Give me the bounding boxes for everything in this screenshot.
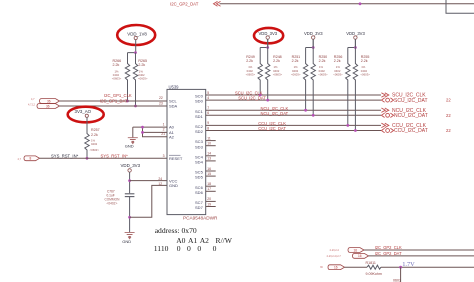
svg-text:0603: 0603	[393, 279, 401, 282]
svg-text:12: 12	[158, 182, 162, 186]
svg-text:R1811: R1811	[366, 261, 376, 265]
pin name SDA / pin 23	[159, 101, 178, 108]
wire SYS_RST_IN*	[40, 157, 168, 159]
svg-text:SD6: SD6	[195, 190, 204, 195]
svg-text:24: 24	[158, 177, 162, 181]
svg-text:22: 22	[159, 96, 163, 100]
svg-text:0: 0	[197, 244, 201, 253]
junction A2/A1 tie	[141, 131, 144, 134]
resistor R250	[311, 39, 328, 115]
junction R266 to SCL wire	[126, 100, 129, 103]
svg-text:SDA: SDA	[169, 104, 178, 109]
svg-text:A0: A0	[169, 125, 175, 130]
wire cap to ground rail	[129, 197, 131, 233]
wire GND pin 12 routing	[130, 185, 167, 217]
partial component box top-right	[446, 0, 474, 13]
wire to VCC pin 24	[130, 180, 167, 182]
off-page marker SCU_I2C_DAT	[381, 98, 427, 104]
svg-text:9: 9	[207, 121, 209, 125]
off-page marker SCU_I2C_CLK	[381, 93, 426, 99]
junction GND rail	[128, 216, 131, 219]
svg-text:<0603>: <0603>	[138, 77, 148, 81]
svg-text:36: 36	[320, 266, 323, 269]
svg-text:0: 0	[213, 244, 217, 253]
highlight ellipse around VDD_3V3 #1	[254, 28, 283, 43]
svg-text:SCU_I2C_DAT: SCU_I2C_DAT	[394, 98, 428, 104]
svg-text:<0603>: <0603>	[273, 72, 283, 76]
capacitor C767	[105, 190, 135, 206]
power symbol VDD_3V3 #2	[304, 31, 323, 39]
off-page connector I2C_GP1_DAT	[28, 103, 60, 108]
wire VDD_3V3 #2 to resistor pair	[306, 39, 314, 47]
off-page connector I2C_GP2_DAT	[327, 254, 369, 259]
svg-text:16: 16	[207, 167, 211, 171]
svg-text:7: 7	[207, 106, 209, 110]
pin SC5 (16) wire	[195, 167, 216, 175]
svg-text:GND: GND	[122, 239, 131, 244]
pin SC7 (20) wire	[195, 197, 216, 205]
resistor R255	[353, 39, 370, 130]
svg-text:<0603>: <0603>	[291, 72, 301, 76]
svg-text:2.2k: 2.2k	[91, 133, 98, 137]
svg-text:5: 5	[207, 91, 209, 95]
svg-text:14: 14	[207, 152, 211, 156]
ground symbol at A pins	[125, 138, 138, 149]
svg-text:17: 17	[207, 187, 211, 191]
resistor R251	[291, 48, 308, 111]
svg-text:15: 15	[207, 172, 211, 176]
svg-text:<0603>: <0603>	[318, 72, 328, 76]
power symbol VDD_1V8	[127, 31, 147, 39]
resistor R1811	[366, 261, 402, 282]
pin SD5 (15) wire	[195, 172, 216, 180]
junction VDD_3V3 #2	[312, 46, 315, 49]
svg-text:SD1: SD1	[195, 114, 204, 119]
svg-text:19: 19	[207, 202, 211, 206]
svg-text:VDD_3V3: VDD_3V3	[304, 31, 323, 36]
svg-text:8: 8	[30, 157, 32, 161]
svg-text:R257: R257	[91, 128, 100, 132]
svg-text:8: 8	[207, 126, 209, 130]
pin SC6 (18) wire	[195, 182, 216, 190]
svg-text:<0603>: <0603>	[246, 72, 256, 76]
svg-text:SD5: SD5	[195, 175, 204, 180]
svg-text:RESET: RESET	[169, 156, 183, 161]
svg-text:2.2k: 2.2k	[273, 59, 280, 63]
off-page connector SYS_RST_IN*	[18, 156, 40, 161]
svg-text:SCU_I2C_DAT: SCU_I2C_DAT	[238, 96, 266, 101]
off-page marker NCU_I2C_CLK	[381, 108, 426, 114]
svg-text:I2C_GP1_DAT: I2C_GP1_DAT	[100, 98, 128, 103]
svg-text:22: 22	[446, 128, 451, 133]
wire R1811 to edge	[381, 266, 474, 268]
svg-text:I2C_GP2_CLK: I2C_GP2_CLK	[375, 245, 402, 250]
pin SD7 (19) wire	[195, 202, 216, 210]
svg-text:22: 22	[446, 113, 451, 118]
pin SC0 (5) wire	[195, 91, 381, 99]
junction A1/A0 tie	[141, 126, 144, 129]
svg-text:16: 16	[354, 248, 358, 252]
off-page marker CCU_I2C_CLK	[381, 123, 426, 129]
svg-text:R//W: R//W	[216, 236, 233, 245]
resistor R265	[133, 53, 148, 106]
svg-text:<0603>: <0603>	[360, 72, 370, 76]
svg-text:4,7: 4,7	[31, 98, 35, 101]
svg-text:36: 36	[46, 104, 50, 108]
pin RESET (3)	[163, 154, 183, 161]
svg-text:3V3_AO: 3V3_AO	[75, 109, 92, 114]
svg-text:6: 6	[207, 111, 209, 115]
svg-text:VDD_3V3: VDD_3V3	[121, 163, 141, 168]
svg-text:CCU_I2C_DAT: CCU_I2C_DAT	[394, 128, 428, 134]
pin name SCL / pin 22	[159, 96, 178, 104]
svg-text:18: 18	[207, 182, 211, 186]
svg-text:I2C_GP1_CLK: I2C_GP1_CLK	[104, 93, 132, 98]
svg-text:NCU_I2C_DAT: NCU_I2C_DAT	[261, 111, 289, 116]
svg-text:address: 0x70: address: 0x70	[155, 226, 197, 235]
wire A0 to ground	[132, 127, 134, 137]
svg-text:2.2k: 2.2k	[361, 59, 368, 63]
svg-text:<0603>: <0603>	[90, 148, 100, 152]
svg-text:2.2k: 2.2k	[292, 59, 299, 63]
wire to R1811	[345, 266, 368, 268]
pin A0 (1) wire	[133, 122, 175, 129]
resistor R248	[266, 39, 283, 100]
address annotation block	[154, 226, 233, 253]
svg-text:SD4: SD4	[195, 160, 204, 165]
junction R255 to CCU dat wire	[354, 129, 357, 132]
off-page marker CCU_I2C_DAT	[381, 128, 427, 134]
pin VCC (24)	[158, 177, 177, 184]
svg-text:I2C_GP2_DAT: I2C_GP2_DAT	[170, 1, 199, 6]
svg-text:10: 10	[207, 142, 211, 146]
svg-text:SD3: SD3	[195, 144, 204, 149]
svg-text:SD0: SD0	[195, 99, 204, 104]
pin SC1 (7) wire	[195, 106, 381, 114]
off-page connector I2C_GP2_CLK	[330, 248, 365, 253]
svg-text:GND: GND	[125, 144, 134, 149]
resistor R249	[246, 48, 263, 96]
wire I2C_GP1_DAT	[60, 105, 168, 107]
junction R248 to SCU dat wire	[266, 99, 269, 102]
power symbol VDD_3V3 #1	[259, 31, 278, 39]
wire I2C_GP2_DAT (top horizontal)	[220, 3, 474, 5]
svg-text:NCU_I2C_DAT: NCU_I2C_DAT	[394, 113, 428, 119]
pin GND (12)	[158, 182, 178, 188]
junction on top wire	[359, 2, 362, 5]
pin SC3 (11) wire	[195, 136, 216, 144]
junction R251 to NCU clk wire	[304, 109, 307, 112]
pin SD1 (6) wire	[195, 111, 381, 119]
svg-text:VDD_3V3: VDD_3V3	[259, 31, 278, 36]
ground symbol below C767	[122, 233, 134, 245]
svg-text:36: 36	[47, 99, 51, 103]
pin SD3 (10) wire	[195, 142, 216, 150]
resistor R257	[85, 117, 100, 158]
svg-text:4,7: 4,7	[18, 158, 22, 161]
pin A2 (21) wire	[143, 127, 175, 139]
resistor R266	[112, 53, 130, 101]
svg-text:2.2k: 2.2k	[138, 63, 145, 67]
svg-text:CCU_I2C_DAT: CCU_I2C_DAT	[258, 126, 286, 131]
svg-text:11: 11	[207, 136, 211, 140]
wire I2C_GP2_DAT (bottom)	[369, 255, 474, 257]
svg-text:20: 20	[207, 197, 211, 201]
net label I2C_GP2_DAT with chevron marker	[170, 1, 221, 6]
svg-text:0402: 0402	[91, 142, 98, 146]
svg-text:2.2k: 2.2k	[246, 59, 253, 63]
pin SD2 (8) wire	[195, 126, 381, 134]
svg-text:GND: GND	[169, 183, 178, 188]
svg-text:4-I2,I2-4: 4-I2,I2-4	[330, 249, 340, 252]
svg-text:4,7,12: 4,7,12	[28, 103, 36, 106]
svg-text:<0402>: <0402>	[107, 202, 118, 206]
svg-text:23: 23	[159, 101, 163, 105]
svg-text:SD2: SD2	[195, 129, 204, 134]
svg-text:4-I2,I2-4,I2-7: 4-I2,I2-4,I2-7	[327, 255, 342, 258]
svg-text:0: 0	[187, 244, 191, 253]
svg-text:SYS_RST_IN*: SYS_RST_IN*	[51, 154, 79, 159]
junction R257 to SYS_RST wire	[86, 157, 89, 160]
resistor R256	[333, 48, 350, 126]
junction R256 to CCU clk wire	[346, 124, 349, 127]
svg-text:16: 16	[334, 266, 338, 270]
wire junction down	[400, 267, 402, 282]
wire VDD_3V3 down to VCC branch	[129, 172, 131, 193]
junction VDD_3V3 #3	[354, 46, 357, 49]
wire I2C_GP2_CLK	[364, 249, 474, 251]
svg-text:SYS_RST_IN*: SYS_RST_IN*	[101, 154, 129, 159]
svg-text:2.2k: 2.2k	[113, 63, 120, 67]
svg-text:2.2k: 2.2k	[334, 59, 341, 63]
pin SD0 (4) wire	[195, 96, 381, 104]
off-page connector I2C_GP1_CLK	[31, 98, 60, 103]
pin SD4 (13) wire	[195, 157, 216, 165]
svg-text:U539: U539	[169, 85, 180, 90]
svg-text:<0603>: <0603>	[333, 72, 343, 76]
svg-text:16: 16	[358, 254, 362, 258]
svg-text:PCA9548ADWR: PCA9548ADWR	[183, 216, 218, 221]
wire VDD_1V8 to resistor pair	[128, 40, 136, 53]
svg-text:SD7: SD7	[195, 205, 204, 210]
svg-text:1110: 1110	[154, 244, 169, 253]
svg-text:13: 13	[207, 157, 211, 161]
pin A1 (2) wire	[143, 128, 175, 135]
junction R250 to NCU dat wire	[312, 114, 315, 117]
power symbol 3V3_AO	[75, 109, 92, 117]
wire VDD_3V3 #3 to resistor pair	[348, 39, 356, 47]
chip U539 body	[167, 85, 218, 221]
junction at VDD_1V8 feed	[134, 51, 137, 54]
pin SC4 (14) wire	[195, 152, 216, 160]
junction VCC branch	[128, 179, 131, 182]
junction at R1811 output	[399, 266, 402, 269]
svg-text:21: 21	[161, 132, 165, 136]
svg-text:3: 3	[163, 154, 165, 158]
wire I2C_GP1_CLK	[60, 100, 168, 102]
junction VDD_3V3 #1	[266, 46, 269, 49]
svg-text:2.2k: 2.2k	[319, 59, 326, 63]
svg-text:0: 0	[177, 244, 181, 253]
highlight ellipse around 3V3_AO	[68, 107, 104, 123]
off-page connector R1811 input	[320, 265, 345, 270]
pin SD6 (17) wire	[195, 187, 216, 195]
svg-text:22: 22	[446, 98, 451, 103]
pin SC2 (9) wire	[195, 121, 381, 129]
svg-text:9.09Kohm: 9.09Kohm	[366, 272, 382, 276]
svg-text:<0603>: <0603>	[112, 77, 122, 81]
junction R249 to SCU clk wire	[259, 94, 262, 97]
svg-text:4: 4	[207, 96, 209, 100]
power symbol VDD_3V3 #3	[346, 31, 365, 39]
highlight ellipse around VDD_1V8	[117, 25, 155, 45]
svg-text:VDD_1V8: VDD_1V8	[127, 31, 147, 36]
svg-text:1: 1	[163, 122, 165, 126]
svg-text:A2: A2	[169, 134, 175, 139]
svg-text:VDD_3V3: VDD_3V3	[346, 31, 365, 36]
off-page marker NCU_I2C_DAT	[381, 113, 427, 119]
svg-text:I2C_GP2_DAT: I2C_GP2_DAT	[375, 251, 402, 256]
junction R265 to SDA wire	[134, 105, 137, 108]
power symbol VDD_3V3 (left)	[121, 163, 141, 172]
svg-text:1.7V: 1.7V	[402, 261, 415, 268]
